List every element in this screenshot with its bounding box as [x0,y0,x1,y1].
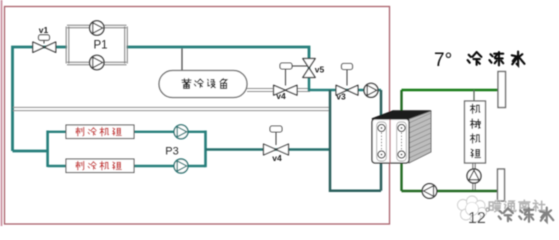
svg-text:v3: v3 [336,92,346,102]
left page edge line [1,0,3,226]
red border frame [5,7,390,225]
wire chiller loop right riser [204,131,207,168]
wire chiller branch upper [48,131,206,133]
storage device oval [159,71,247,98]
base-load unit box [465,101,486,163]
label chiller 1 制冷机组 [76,127,84,135]
header 7C [498,72,506,108]
valve v3 actuator [342,64,353,70]
heat exchanger left port plate [377,122,387,161]
valve v1 [33,42,56,53]
frame line over hx [389,120,391,164]
chiller box 1 [66,125,134,139]
wire 7C supply green [402,89,499,92]
svg-text:v4: v4 [276,91,286,101]
valve v2 actuator [270,126,282,132]
svg-text:v1: v1 [39,25,49,35]
wire chiller branch lower [48,165,206,167]
wire top supply pipe [13,47,310,151]
valve v4 actuator [280,63,292,69]
wire chiller outlet [206,148,331,150]
heat exchanger right port plate [397,122,407,161]
pump P1 upper [90,21,104,35]
wire oval top connector [181,48,183,70]
label chiller 2 制冷机组 [76,161,84,169]
watermark text [489,200,500,211]
wire hx left riser top [380,90,383,126]
svg-text:7°: 7° [434,50,452,71]
wire hx right riser top [400,90,402,126]
wire chiller loop left riser [46,131,49,168]
valve v5 [303,59,316,78]
label base-load unit 机械机组 [470,104,479,113]
svg-text:°: ° [485,205,490,220]
wire base unit bottom stub [473,163,475,191]
pump return [422,184,437,199]
pump P3 lower [174,159,188,173]
pump primary [364,83,378,97]
wire base unit top stub [473,90,475,101]
label storage device 蓄冷设备 [182,79,191,89]
svg-text:12: 12 [468,210,486,227]
wire chiller loop feed [13,150,48,153]
wire hx left riser bottom [380,157,383,191]
pump base-load [467,169,481,183]
pump-group box P1 [66,25,127,65]
pump P1 lower [90,55,104,69]
svg-text:P1: P1 [93,40,107,52]
chiller box 2 [66,159,134,173]
wire bypass riser [330,90,381,191]
wire v4 to junction [297,89,311,92]
svg-text:P3: P3 [165,146,178,158]
heat exchanger body [372,111,431,119]
watermark logo [458,200,469,211]
wire hx right riser bottom [400,157,402,191]
wire oval to v4 [247,89,275,92]
wire long gray pipe [13,107,330,110]
valve v3 [336,85,358,95]
svg-text:v5: v5 [315,65,325,75]
svg-text:v4: v4 [272,153,282,163]
valve v2 [264,144,289,155]
valve v4 [274,85,298,95]
header 12C [498,169,505,201]
pump P3 upper [174,125,188,139]
valve v1 actuator [39,35,50,41]
wire 12C return green [402,190,498,193]
wire mid teal line [309,59,381,90]
